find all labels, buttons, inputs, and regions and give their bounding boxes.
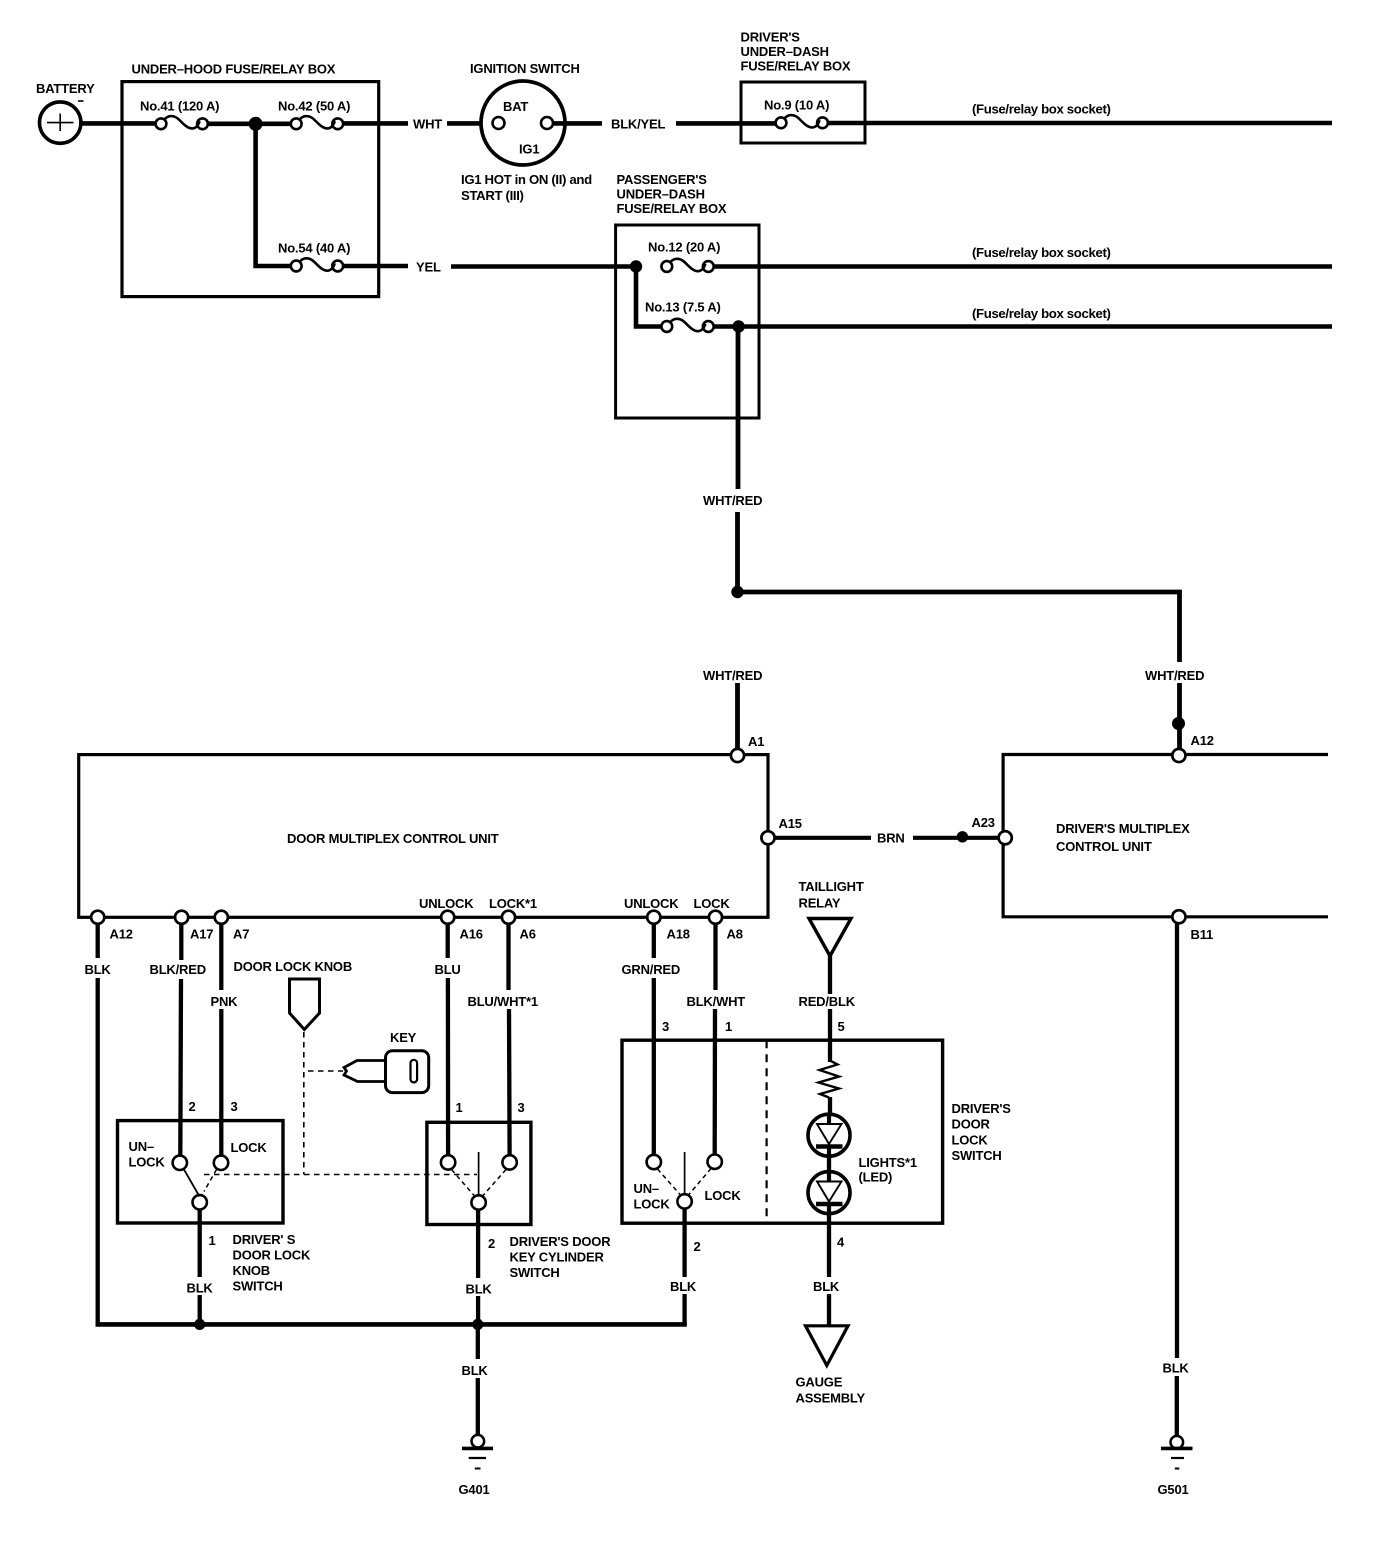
svg-text:3: 3 (518, 1100, 525, 1115)
wire A16 down (446, 924, 450, 958)
svg-text:No.54 (40 A): No.54 (40 A) (278, 241, 350, 256)
ground G401 (459, 1435, 494, 1497)
wire RED/BLK down (828, 954, 832, 994)
ground G501 (1158, 1436, 1193, 1497)
svg-text:GAUGE: GAUGE (796, 1375, 843, 1390)
svg-text:5: 5 (838, 1019, 845, 1034)
svg-text:A15: A15 (779, 816, 802, 831)
wire bus down to G401 (476, 1324, 480, 1359)
driver's under-dash fuse/relay box (741, 30, 866, 144)
wire fuse41 to node (209, 122, 259, 127)
svg-text:RELAY: RELAY (799, 896, 841, 911)
wire LED2 down to pin 4 (827, 1212, 831, 1277)
wire resistor to LED1 (828, 1097, 832, 1115)
wire WHT to ignition (447, 121, 493, 126)
wire A12 down to ground bus (96, 924, 100, 958)
svg-text:START (III): START (III) (461, 188, 524, 203)
terminal A23 (999, 831, 1012, 844)
svg-text:UN–: UN– (129, 1139, 154, 1154)
driver's door lock switch common terminal (677, 1194, 691, 1208)
svg-text:No.41 (120 A): No.41 (120 A) (140, 99, 219, 114)
svg-text:A8: A8 (727, 927, 743, 942)
terminal A15 (761, 831, 774, 844)
gauge assembly connector triangle (806, 1326, 849, 1366)
key cylinder actuator line (478, 1152, 480, 1195)
svg-text:LOCK: LOCK (694, 896, 731, 911)
node cylinder-bus junction (472, 1319, 483, 1330)
svg-text:1: 1 (725, 1019, 732, 1034)
svg-text:BLK: BLK (462, 1363, 489, 1378)
svg-text:FUSE/RELAY BOX: FUSE/RELAY BOX (617, 201, 727, 216)
fuse No.13 (7.5 A) (645, 300, 721, 332)
svg-text:UNDER–DASH: UNDER–DASH (741, 44, 829, 59)
terminal A18 (647, 911, 660, 924)
node above A12 (1172, 717, 1185, 730)
passenger's under-dash fuse/relay box (616, 172, 759, 418)
key cylinder terminal 1 (441, 1155, 455, 1169)
svg-text:A16: A16 (460, 927, 483, 942)
svg-text:2: 2 (488, 1236, 495, 1251)
pin 2 wire from common to bus (682, 1208, 686, 1277)
svg-text:3: 3 (662, 1019, 669, 1034)
wire key cylinder common to bus (476, 1209, 480, 1278)
switch blade actuator line (684, 1152, 686, 1194)
svg-text:PASSENGER'S: PASSENGER'S (617, 172, 708, 187)
wire battery to under-hood box (81, 121, 157, 126)
svg-text:No.9 (10 A): No.9 (10 A) (764, 98, 829, 113)
svg-text:BLK/WHT: BLK/WHT (687, 994, 746, 1009)
svg-text:UNLOCK: UNLOCK (624, 896, 679, 911)
svg-text:No.13 (7.5 A): No.13 (7.5 A) (645, 300, 721, 315)
terminal A6 (502, 911, 515, 924)
ground bus wire (96, 1322, 687, 1327)
wire A7 down (219, 924, 223, 990)
svg-text:BLK/RED: BLK/RED (150, 962, 206, 977)
svg-text:(Fuse/relay box socket): (Fuse/relay box socket) (972, 102, 1111, 117)
svg-text:DOOR: DOOR (952, 1117, 991, 1132)
door multiplex control unit box (79, 755, 768, 918)
svg-text:LOCK: LOCK (952, 1132, 989, 1147)
terminal A12 bottom (91, 911, 104, 924)
wire knob common to bus (198, 1209, 202, 1277)
terminal A7 (215, 911, 228, 924)
dashed link key to knob line (308, 1070, 343, 1072)
wire fuse/relay box socket line 3 (714, 324, 1333, 329)
svg-text:A23: A23 (972, 815, 995, 830)
knob switch common terminal (193, 1195, 207, 1209)
svg-text:(LED): (LED) (859, 1170, 893, 1185)
svg-text:YEL: YEL (416, 260, 441, 275)
svg-text:1: 1 (456, 1100, 463, 1115)
dashed blade to terminal 1 (452, 1170, 475, 1197)
svg-text:WHT/RED: WHT/RED (703, 668, 762, 683)
fuse No.12 (20 A) (648, 240, 720, 272)
svg-text:UNLOCK: UNLOCK (419, 896, 474, 911)
node after fuse13 (732, 320, 744, 332)
svg-text:IG1: IG1 (519, 142, 539, 157)
svg-text:BLU: BLU (435, 962, 461, 977)
dashed link horizontal to switches (204, 1174, 477, 1176)
svg-text:No.42 (50 A): No.42 (50 A) (278, 99, 350, 114)
LED 1 (808, 1114, 850, 1156)
svg-text:A12: A12 (1191, 733, 1214, 748)
fuse No.41 (120 A) (140, 99, 219, 130)
under-hood fuse/relay box (122, 62, 379, 297)
driver's door lock knob switch box (118, 1121, 284, 1223)
key cylinder terminal 3 (502, 1155, 516, 1169)
node on BRN wire (957, 831, 968, 842)
svg-text:GRN/RED: GRN/RED (622, 962, 681, 977)
svg-text:DRIVER'S MULTIPLEX: DRIVER'S MULTIPLEX (1056, 821, 1190, 836)
dashed divider in switch box (765, 1040, 767, 1223)
svg-text:G501: G501 (1158, 1482, 1189, 1497)
svg-text:KNOB: KNOB (233, 1263, 270, 1278)
wire WHT/RED to node (735, 512, 740, 592)
svg-text:BLK: BLK (1163, 1361, 1190, 1376)
wire node to fuse42 (256, 122, 292, 127)
terminal A17 (175, 911, 188, 924)
battery (36, 81, 95, 143)
wire BLK/YEL to driver's box (676, 121, 776, 126)
node WHT/RED split (731, 586, 743, 598)
wire YEL segment (343, 264, 408, 269)
svg-text:A17: A17 (190, 927, 213, 942)
svg-text:IGNITION SWITCH: IGNITION SWITCH (470, 61, 580, 76)
svg-text:WHT/RED: WHT/RED (1145, 668, 1204, 683)
svg-text:3: 3 (231, 1099, 238, 1114)
svg-text:UN–: UN– (634, 1181, 659, 1196)
svg-text:DRIVER'S: DRIVER'S (741, 30, 801, 45)
knob switch unlock terminal (173, 1156, 187, 1170)
wire to gauge assembly (827, 1294, 831, 1327)
svg-text:KEY CYLINDER: KEY CYLINDER (510, 1250, 605, 1265)
ignition switch (461, 61, 592, 203)
dashed blade to lock (689, 1169, 712, 1196)
svg-text:SWITCH: SWITCH (952, 1148, 1002, 1163)
svg-text:BAT: BAT (503, 99, 528, 114)
svg-text:No.12 (20 A): No.12 (20 A) (648, 240, 720, 255)
key symbol (344, 1051, 429, 1093)
driver's door key cylinder switch box (427, 1122, 531, 1224)
knob switch dashed blade (204, 1170, 217, 1192)
svg-text:BLK: BLK (85, 962, 112, 977)
svg-text:CONTROL UNIT: CONTROL UNIT (1056, 839, 1152, 854)
taillight relay connector triangle (809, 919, 851, 957)
svg-text:LIGHTS*1: LIGHTS*1 (859, 1155, 917, 1170)
svg-text:LOCK: LOCK (634, 1197, 671, 1212)
wire B11 down to G501 (1175, 924, 1179, 1359)
svg-text:LOCK: LOCK (129, 1155, 166, 1170)
svg-text:DOOR LOCK KNOB: DOOR LOCK KNOB (234, 959, 353, 974)
svg-text:ASSEMBLY: ASSEMBLY (796, 1391, 866, 1406)
wire junction down to fuse13 (636, 267, 662, 327)
wire branch right to driver's multiplex (738, 592, 1180, 662)
knob switch lock terminal (214, 1156, 228, 1170)
wire fuse/relay box socket line 1 (828, 121, 1333, 126)
terminal A8 (709, 911, 722, 924)
wire WHT segment (343, 121, 408, 126)
node passenger junction (630, 260, 642, 272)
svg-text:G401: G401 (459, 1482, 490, 1497)
svg-text:B11: B11 (1191, 927, 1214, 942)
dashed link knob down (303, 1032, 305, 1175)
svg-text:PNK: PNK (211, 994, 239, 1009)
fuse No.42 (50 A) (278, 99, 350, 130)
svg-text:LOCK: LOCK (705, 1188, 742, 1203)
wire YEL to passenger box (451, 264, 638, 269)
LED 2 (808, 1172, 850, 1214)
knob switch blade solid (184, 1169, 200, 1197)
svg-text:WHT: WHT (413, 117, 442, 132)
wire BRN from A15 to A23 (775, 836, 872, 840)
wire fuse/relay box socket line 2 (714, 264, 1333, 269)
driver's multiplex control unit box (1003, 755, 1328, 917)
node under-hood junction (249, 117, 263, 131)
svg-text:UNDER–DASH: UNDER–DASH (617, 187, 705, 202)
svg-text:4: 4 (837, 1235, 845, 1250)
fuse No.54 (40 A) (278, 241, 350, 272)
wire LED1 to LED2 (827, 1155, 831, 1173)
dashed blade to unlock (658, 1169, 681, 1195)
terminal A16 (441, 911, 454, 924)
svg-text:BLK/YEL: BLK/YEL (611, 117, 665, 132)
wire left branch to A1 (735, 683, 740, 750)
svg-text:(Fuse/relay box socket): (Fuse/relay box socket) (972, 306, 1111, 321)
wire A8 down (713, 924, 717, 990)
wire A17 down (179, 924, 183, 960)
terminal B11 (1172, 910, 1185, 923)
driver's door lock switch box (622, 1040, 943, 1223)
svg-text:A18: A18 (667, 927, 690, 942)
wire A18 down (652, 924, 656, 958)
svg-text:(Fuse/relay box socket): (Fuse/relay box socket) (972, 245, 1111, 260)
svg-text:DRIVER'S: DRIVER'S (952, 1101, 1012, 1116)
driver's door lock switch unlock terminal (647, 1155, 661, 1169)
wire node down to fuse54 (256, 124, 292, 266)
svg-text:1: 1 (209, 1233, 216, 1248)
svg-text:BLU/WHT*1: BLU/WHT*1 (468, 994, 538, 1009)
svg-text:DOOR MULTIPLEX CONTROL UNIT: DOOR MULTIPLEX CONTROL UNIT (287, 831, 499, 846)
wire A6 down (506, 924, 510, 990)
svg-text:BLK: BLK (187, 1281, 214, 1296)
svg-text:A1: A1 (748, 734, 764, 749)
svg-text:SWITCH: SWITCH (233, 1279, 283, 1294)
svg-text:A7: A7 (233, 927, 249, 942)
svg-text:BRN: BRN (877, 831, 905, 846)
svg-text:BATTERY: BATTERY (36, 81, 95, 96)
svg-text:KEY: KEY (390, 1030, 417, 1045)
driver's door lock switch lock terminal (708, 1155, 722, 1169)
svg-text:SWITCH: SWITCH (510, 1265, 560, 1280)
dashed blade to terminal 3 (483, 1170, 507, 1197)
svg-text:FUSE/RELAY BOX: FUSE/RELAY BOX (741, 59, 851, 74)
node knob-bus junction (194, 1319, 205, 1330)
resistor in door lock switch (819, 1060, 840, 1098)
wire WHT/RED down from fuse13 (736, 327, 741, 490)
svg-text:DOOR LOCK: DOOR LOCK (233, 1248, 311, 1263)
svg-text:A6: A6 (520, 927, 536, 942)
svg-text:UNDER–HOOD FUSE/RELAY BOX: UNDER–HOOD FUSE/RELAY BOX (132, 62, 336, 77)
svg-text:BLK: BLK (466, 1282, 493, 1297)
terminal A1 (731, 749, 744, 762)
fuse No.9 (10 A) (764, 98, 829, 129)
svg-text:BLK: BLK (670, 1279, 697, 1294)
svg-text:DRIVER'S DOOR: DRIVER'S DOOR (510, 1234, 612, 1249)
wire right branch to A12 (1177, 683, 1182, 750)
wire ignition to BLK/YEL (554, 121, 603, 126)
svg-text:2: 2 (189, 1099, 196, 1114)
terminal A12 (driver's multiplex) (1172, 749, 1185, 762)
svg-text:BLK: BLK (813, 1279, 840, 1294)
svg-text:A12: A12 (110, 927, 133, 942)
svg-text:WHT/RED: WHT/RED (703, 493, 762, 508)
svg-text:TAILLIGHT: TAILLIGHT (799, 879, 864, 894)
svg-text:IG1 HOT in ON (II) and: IG1 HOT in ON (II) and (461, 172, 592, 187)
svg-text:DRIVER' S: DRIVER' S (233, 1232, 296, 1247)
svg-text:LOCK: LOCK (231, 1140, 268, 1155)
svg-text:LOCK*1: LOCK*1 (489, 896, 537, 911)
svg-text:RED/BLK: RED/BLK (799, 994, 856, 1009)
door lock knob symbol (290, 979, 320, 1030)
svg-text:2: 2 (694, 1239, 701, 1254)
key cylinder common terminal (471, 1195, 485, 1209)
